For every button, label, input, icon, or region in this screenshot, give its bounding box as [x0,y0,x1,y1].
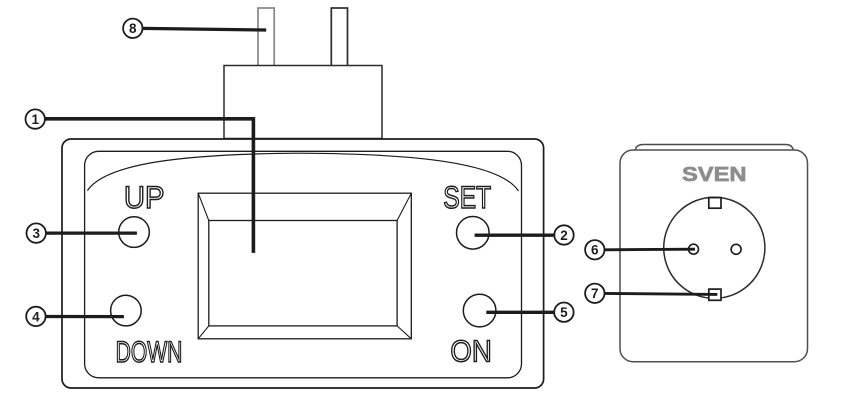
callout line 6 [604,248,695,252]
label DOWN [116,336,183,369]
callout balloon 1 [26,109,45,128]
socket pin hole left [689,244,699,254]
svg-text:2: 2 [560,228,568,243]
button UP [119,217,150,248]
svg-text:4: 4 [32,309,40,324]
svg-text:5: 5 [560,305,568,320]
callout balloon 3 [27,223,46,242]
label ON [450,334,491,369]
callout balloon 6 [585,240,604,259]
callout line 3 [46,231,137,234]
display bevel diagonal top-right [397,193,411,220]
display bevel diagonal bottom-right [397,326,411,339]
socket earth clip [709,289,721,300]
label UP [124,179,165,215]
socket top notch [709,198,721,209]
callout balloon 8 [123,19,142,38]
callout line 8 [142,28,266,30]
callout line 7 [604,293,717,294]
svg-text:UP: UP [124,179,165,215]
button ON [463,294,496,327]
svg-text:3: 3 [32,226,40,241]
button SET [457,217,490,250]
button DOWN [111,295,142,326]
callout balloon 2 [554,225,573,244]
svg-text:SET: SET [443,179,491,215]
callout line 4 [46,315,124,318]
svg-text:1: 1 [31,112,39,127]
callout line 1 [45,119,253,253]
socket pin hole right [731,244,741,254]
plug pin right [331,8,347,66]
plug pin left [258,8,274,66]
display bevel diagonal top-left [198,193,209,220]
socket body [620,150,808,362]
socket back plate [635,145,794,161]
label SET [443,179,491,215]
svg-text:6: 6 [591,243,599,258]
svg-text:SVEN: SVEN [682,164,747,186]
timer body outer [62,139,544,388]
callout balloon 5 [554,303,573,322]
svg-text:DOWN: DOWN [116,336,183,369]
display inner screen [209,221,397,326]
plug body [224,66,382,139]
panel bevel curve [87,153,518,191]
socket recess circle [664,197,765,298]
callout balloon 7 [585,284,604,303]
display outer frame [198,193,411,339]
svg-text:8: 8 [129,21,137,36]
svg-text:ON: ON [450,334,491,369]
callout balloon 4 [26,307,45,326]
callout line 5 [486,311,554,314]
callout line 2 [475,234,555,237]
timer body inner panel [85,151,522,377]
SVEN logo [682,164,747,186]
display bevel diagonal bottom-left [198,326,209,339]
svg-text:7: 7 [591,286,599,301]
